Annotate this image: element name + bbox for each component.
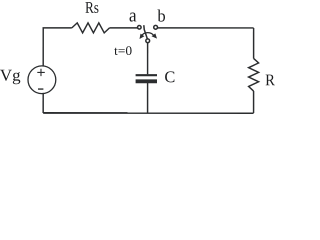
wire right vertical down to R (253, 28, 255, 58)
wire source bottom to bottom-left corner (42, 93, 44, 113)
resistor R (249, 58, 259, 91)
node b contact circle (154, 25, 158, 29)
wire node b to right corner (158, 27, 254, 29)
switch blade (144, 25, 148, 39)
wire Rs to node a (110, 27, 138, 29)
node a contact circle (138, 25, 142, 29)
label C (165, 71, 174, 82)
voltage source Vg circle (28, 66, 56, 94)
switch arc left arrowhead (140, 34, 145, 39)
capacitor C top plate (136, 74, 157, 76)
label Rs (85, 2, 98, 13)
wire R to bottom (253, 91, 255, 113)
bottom wire (43, 112, 253, 114)
label R (266, 75, 275, 86)
wire switch pivot down to capacitor (147, 43, 149, 74)
source plus sign (37, 71, 44, 73)
switch throw arc (141, 33, 154, 37)
source minus sign (38, 88, 43, 90)
switch arc right arrowhead (152, 33, 158, 38)
switch pivot circle (146, 39, 150, 43)
label a (130, 12, 137, 21)
wire top-left from source to Rs (43, 28, 72, 67)
label Vg (0, 70, 20, 85)
resistor Rs (72, 23, 110, 33)
label b (157, 10, 165, 22)
capacitor C bottom plate (136, 79, 157, 83)
wire capacitor to bottom (147, 83, 149, 113)
label t=0 (114, 46, 131, 55)
